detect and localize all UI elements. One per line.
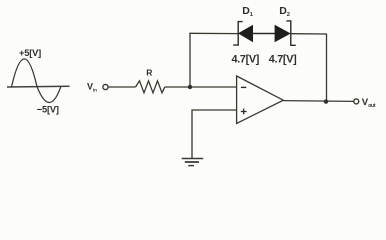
wire feedback right vertical: [326, 34, 328, 102]
zener diode D1: [233, 22, 252, 45]
node output junction: [324, 99, 328, 103]
svg-text:4.7[V]: 4.7[V]: [232, 53, 260, 65]
zener diode D2: [275, 21, 296, 45]
op-amp minus sign: [241, 86, 246, 88]
ground: [182, 159, 204, 166]
svg-text:−5[V]: −5[V]: [37, 104, 59, 114]
resistor R: [136, 81, 165, 93]
input terminal: [103, 84, 108, 89]
source sine wave: [12, 59, 62, 103]
source sine axis: [7, 85, 70, 88]
wire feedback left vertical: [189, 33, 191, 87]
node junction at inverting input: [188, 85, 192, 89]
wire feedback top rail left: [189, 32, 238, 34]
op-amp U1: [237, 76, 284, 124]
op-amp plus sign: [241, 109, 247, 115]
wire op-amp output: [283, 100, 353, 103]
wire R to op-amp inverting input: [165, 86, 237, 88]
output terminal: [354, 99, 359, 104]
wire Vin to R: [108, 86, 135, 88]
svg-text:+5[V]: +5[V]: [19, 48, 41, 58]
wire between D1 and D2: [253, 33, 275, 35]
svg-text:4.7[V]: 4.7[V]: [269, 53, 297, 65]
wire feedback top rail right: [291, 33, 327, 35]
wire non-inverting input: [192, 110, 237, 158]
svg-text:R: R: [146, 68, 152, 78]
